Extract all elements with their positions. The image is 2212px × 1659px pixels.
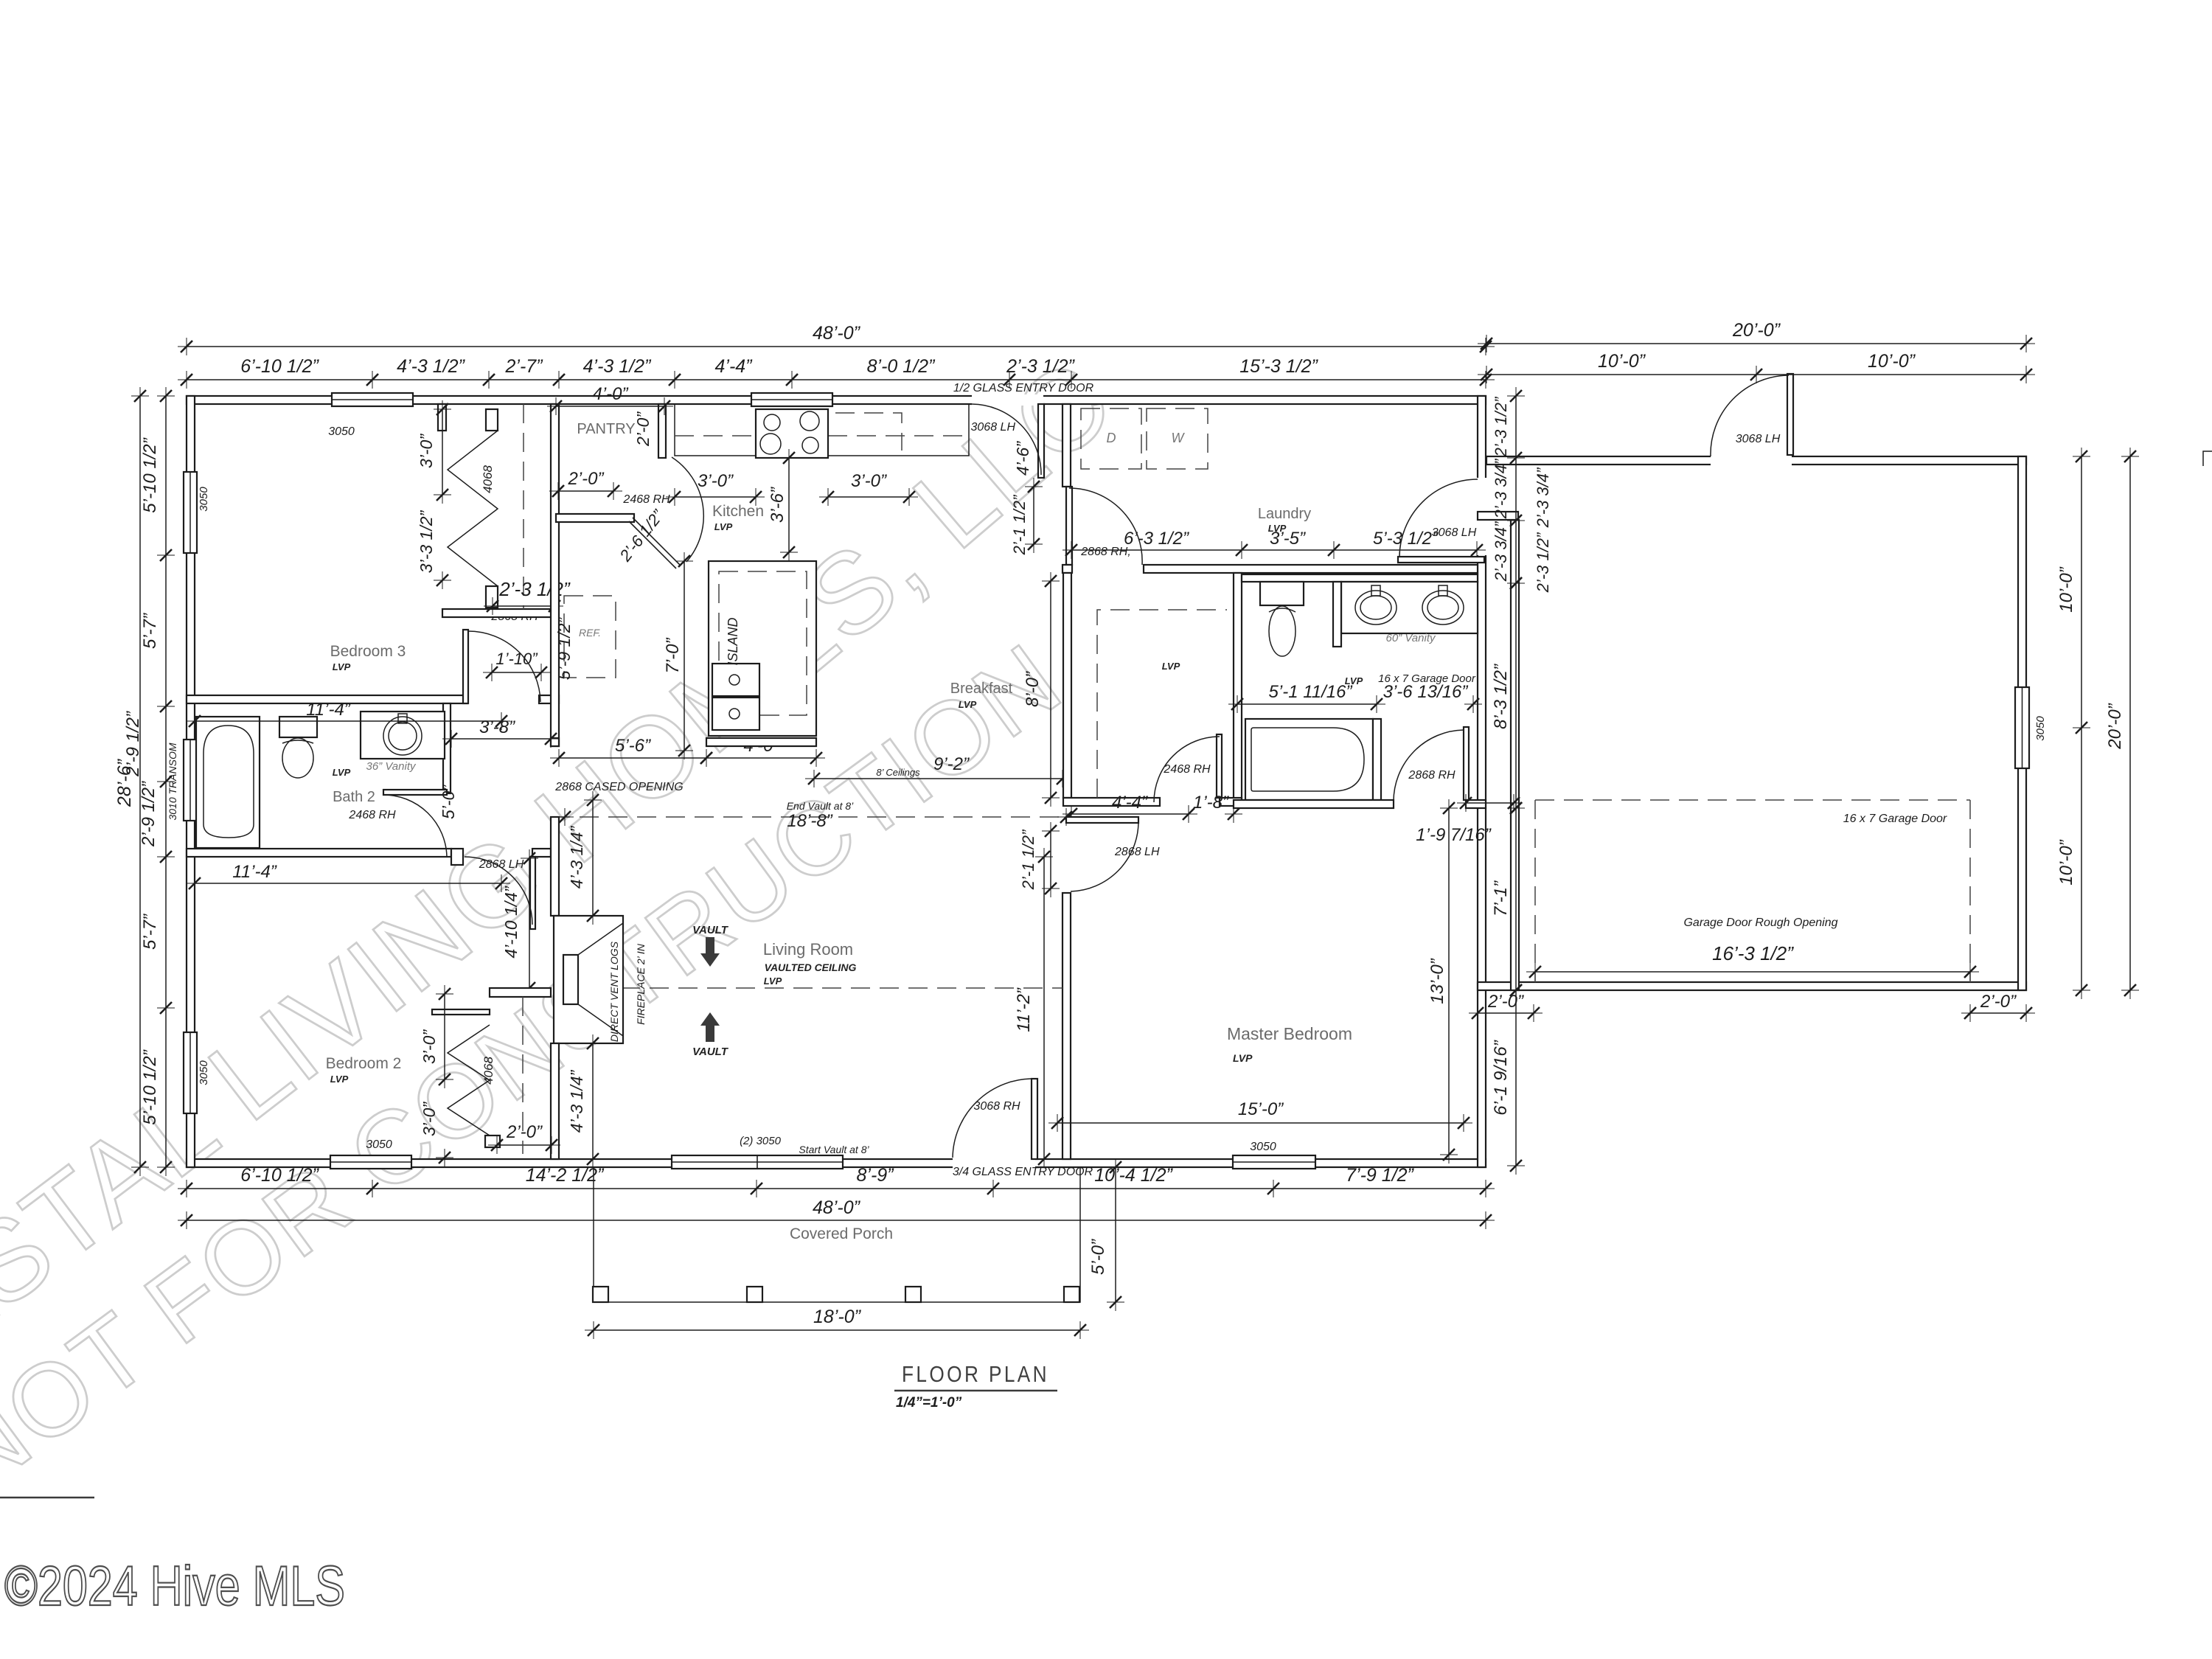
top segment dims xyxy=(187,379,1486,380)
svg-text:LVP: LVP xyxy=(714,521,733,532)
garage top wall xyxy=(1486,456,2026,465)
breakfast dim 9-2 xyxy=(814,778,1062,779)
vault arrow down xyxy=(700,937,720,967)
svg-text:13’-0”: 13’-0” xyxy=(1427,958,1447,1004)
bedroom3 closet bottom wall xyxy=(442,609,556,617)
svg-text:11’-4”: 11’-4” xyxy=(306,700,351,720)
svg-text:4’-3 1/2”: 4’-3 1/2” xyxy=(397,356,465,377)
svg-text:10’-0”: 10’-0” xyxy=(1598,351,1646,372)
svg-text:2868 LH: 2868 LH xyxy=(479,858,524,871)
svg-text:PANTRY: PANTRY xyxy=(577,421,635,437)
svg-text:FIREPLACE 2’ IN: FIREPLACE 2’ IN xyxy=(635,943,647,1025)
svg-text:3’-0”: 3’-0” xyxy=(420,1029,439,1064)
svg-text:5’-7”: 5’-7” xyxy=(140,914,160,950)
kitchen dims xyxy=(675,496,756,498)
bath2 right wall xyxy=(443,703,451,793)
porch overall dim 48-0 xyxy=(187,1220,1486,1221)
svg-text:4068: 4068 xyxy=(481,465,495,493)
watermark text NOT FOR CONSTRUCTION xyxy=(0,686,1084,1497)
svg-text:4’-6”: 4’-6” xyxy=(1013,441,1032,476)
window pair (2) 3050 living room bottom wall xyxy=(672,1155,843,1169)
svg-text:2’-3 3/4”: 2’-3 3/4” xyxy=(1492,521,1510,582)
svg-text:8’-9”: 8’-9” xyxy=(856,1165,894,1186)
svg-text:8’-0”: 8’-0” xyxy=(1023,671,1043,707)
garage right dim chains xyxy=(2081,456,2082,990)
garage overhead door dashed 16x7 xyxy=(1535,799,1970,801)
svg-text:2’-3 1/2”: 2’-3 1/2” xyxy=(1492,396,1510,457)
svg-text:LVP: LVP xyxy=(333,767,351,778)
svg-text:6’-10 1/2”: 6’-10 1/2” xyxy=(240,1165,319,1186)
right side dim chain xyxy=(1515,396,1517,583)
svg-text:Breakfast: Breakfast xyxy=(950,681,1013,697)
svg-text:3050: 3050 xyxy=(198,1060,210,1085)
svg-text:2868 RH: 2868 RH xyxy=(1408,769,1455,782)
svg-text:FLOOR PLAN: FLOOR PLAN xyxy=(902,1361,1049,1387)
svg-text:2468 RH: 2468 RH xyxy=(1163,763,1211,776)
svg-text:Covered Porch: Covered Porch xyxy=(790,1225,893,1242)
svg-text:D: D xyxy=(1107,431,1116,445)
svg-text:6’-1 9/16”: 6’-1 9/16” xyxy=(1491,1040,1511,1115)
porch depth dim 5-0 xyxy=(1115,1167,1116,1302)
svg-text:5’-10 1/2”: 5’-10 1/2” xyxy=(140,437,160,512)
svg-text:10’-0”: 10’-0” xyxy=(2056,566,2076,612)
svg-text:36” Vanity: 36” Vanity xyxy=(366,760,417,773)
window 3050 master bottom wall xyxy=(1233,1155,1315,1169)
svg-text:2868 CASED OPENING: 2868 CASED OPENING xyxy=(554,781,683,793)
window 3030 kitchen top wall xyxy=(751,393,832,406)
svg-text:48’-0”: 48’-0” xyxy=(813,1197,861,1218)
living room dim 11-2 xyxy=(1043,857,1045,1159)
svg-text:3050: 3050 xyxy=(1250,1141,1276,1153)
wall bedroom3 / bath2 xyxy=(187,695,467,703)
svg-text:10’-0”: 10’-0” xyxy=(2056,839,2076,885)
corner mark right edge xyxy=(2203,451,2212,466)
svg-text:16 x 7 Garage Door: 16 x 7 Garage Door xyxy=(1843,813,1947,825)
svg-text:2’-0”: 2’-0” xyxy=(567,469,604,489)
closet south wall xyxy=(1063,798,1160,806)
porch bottom segment dims xyxy=(187,1188,1486,1189)
svg-text:2’-3 1/2”: 2’-3 1/2” xyxy=(1006,356,1075,377)
svg-text:14’-2 1/2”: 14’-2 1/2” xyxy=(526,1165,605,1186)
covered porch outline xyxy=(594,1167,1080,1302)
closet dims xyxy=(1050,581,1051,798)
svg-text:Start Vault at 8’: Start Vault at 8’ xyxy=(799,1144,869,1155)
laundry south wall xyxy=(1062,565,1072,573)
fireplace dims xyxy=(592,800,594,916)
svg-text:3’-0”: 3’-0” xyxy=(698,471,734,491)
bath2 door 2468 RH xyxy=(383,790,447,795)
svg-text:2’-0”: 2’-0” xyxy=(1980,992,2017,1012)
porch dim 18-0 xyxy=(594,1329,1080,1331)
svg-text:2’-9 1/2”: 2’-9 1/2” xyxy=(139,781,159,847)
bath tub xyxy=(1245,719,1373,800)
svg-text:2’-0”: 2’-0” xyxy=(633,411,653,447)
pantry bottom wall xyxy=(556,514,634,522)
svg-text:2’-1 1/2”: 2’-1 1/2” xyxy=(1010,494,1029,555)
svg-text:3’-0”: 3’-0” xyxy=(851,471,887,491)
overall top dim 48-0 xyxy=(187,346,1486,347)
svg-text:2’-1 1/2”: 2’-1 1/2” xyxy=(1019,829,1037,890)
svg-text:3068 RH: 3068 RH xyxy=(973,1100,1020,1113)
bedroom3 door 2868 RH xyxy=(463,630,468,703)
svg-text:2’-3 3/4”: 2’-3 3/4” xyxy=(1492,458,1510,519)
svg-text:10’-0”: 10’-0” xyxy=(1868,351,1916,372)
dim 2-3.5 below closet xyxy=(493,605,554,607)
svg-text:20’-0”: 20’-0” xyxy=(2105,703,2125,749)
svg-text:3’-6”: 3’-6” xyxy=(768,487,787,523)
garage door 3068 LH top wall xyxy=(1787,374,1793,455)
svg-text:5’-0”: 5’-0” xyxy=(1088,1239,1108,1275)
tub wall stub xyxy=(1373,719,1381,800)
stub wall between house and garage xyxy=(1478,512,1518,520)
house right exterior wall xyxy=(1478,396,1486,1167)
svg-text:(2) 3050: (2) 3050 xyxy=(740,1135,782,1147)
svg-text:1/4”=1’-0”: 1/4”=1’-0” xyxy=(896,1395,962,1411)
window 3050 bedroom3 top wall xyxy=(332,393,413,406)
svg-text:4’-10 1/4”: 4’-10 1/4” xyxy=(501,886,521,959)
master west wall xyxy=(1062,893,1071,1159)
svg-text:20’-0”: 20’-0” xyxy=(1732,320,1781,341)
svg-text:3/4 GLASS ENTRY DOOR: 3/4 GLASS ENTRY DOOR xyxy=(953,1166,1093,1178)
svg-text:3’-6 13/16”: 3’-6 13/16” xyxy=(1383,682,1469,702)
svg-text:3’-5”: 3’-5” xyxy=(1270,529,1306,549)
svg-text:5’-0”: 5’-0” xyxy=(439,785,458,819)
closet west wall xyxy=(1063,573,1071,798)
svg-text:2’-3 1/2”: 2’-3 1/2” xyxy=(498,578,571,600)
svg-text:ISLAND: ISLAND xyxy=(726,617,740,665)
svg-text:3050: 3050 xyxy=(366,1138,392,1151)
svg-text:End Vault at 8’: End Vault at 8’ xyxy=(787,800,854,812)
svg-text:3068 LH: 3068 LH xyxy=(1736,433,1781,445)
svg-text:4’-3 1/4”: 4’-3 1/4” xyxy=(567,1069,586,1133)
svg-text:2468 RH: 2468 RH xyxy=(348,809,396,821)
svg-text:3’-8”: 3’-8” xyxy=(479,717,515,737)
cased opening dims xyxy=(559,757,706,759)
svg-text:5’-1 11/16”: 5’-1 11/16” xyxy=(1269,682,1353,702)
svg-text:2’-3 3/4”: 2’-3 3/4” xyxy=(1534,467,1552,528)
svg-text:2’-3 1/2”: 2’-3 1/2” xyxy=(1534,532,1552,593)
svg-text:DIRECT VENT LOGS: DIRECT VENT LOGS xyxy=(608,941,620,1042)
svg-text:4’-4”: 4’-4” xyxy=(1112,793,1148,813)
svg-text:18’-8”: 18’-8” xyxy=(787,811,832,831)
hall door 2868 LH xyxy=(530,857,535,929)
toilet master bath xyxy=(1260,582,1304,605)
svg-text:4’-3 1/2”: 4’-3 1/2” xyxy=(583,356,652,377)
svg-text:3050: 3050 xyxy=(198,487,210,512)
bedroom2 closet top wall xyxy=(490,988,551,997)
svg-text:60” Vanity: 60” Vanity xyxy=(1386,632,1436,644)
bath2 vanity 36 xyxy=(361,712,445,759)
svg-text:4’-3 1/4”: 4’-3 1/4” xyxy=(567,825,586,888)
hall entry door 3068 RH three-quarter glass xyxy=(1032,1079,1037,1159)
vault arrow up xyxy=(700,1012,720,1042)
garage 2-0 dims xyxy=(1478,1012,1534,1014)
house top exterior wall xyxy=(187,396,1486,404)
bath2 fixtures: tub xyxy=(196,717,260,848)
svg-text:1’-10”: 1’-10” xyxy=(495,650,538,668)
svg-text:3’-0”: 3’-0” xyxy=(420,1102,439,1136)
svg-text:4068: 4068 xyxy=(481,1057,495,1085)
closet shelves dashed xyxy=(1097,610,1227,798)
svg-text:Bath 2: Bath 2 xyxy=(333,789,375,805)
svg-text:2’-7”: 2’-7” xyxy=(504,356,543,377)
master top wall xyxy=(1234,800,1394,808)
fireplace direct vent xyxy=(551,817,559,916)
entry / laundry wall xyxy=(1062,404,1071,487)
bedroom2 dim 11-4 xyxy=(195,883,501,884)
svg-text:5’-3 1/2”: 5’-3 1/2” xyxy=(1373,529,1439,549)
svg-text:LVP: LVP xyxy=(1233,1052,1253,1064)
svg-text:3050: 3050 xyxy=(2034,716,2047,741)
svg-text:3068 LH: 3068 LH xyxy=(1432,526,1477,539)
cased opening wall xyxy=(551,738,559,746)
svg-text:Laundry: Laundry xyxy=(1258,506,1311,522)
pantry dims xyxy=(556,406,664,407)
window 3050 bedroom2 bottom wall xyxy=(330,1155,411,1169)
bedroom2 closet dims xyxy=(444,994,445,1079)
kitchen counter xyxy=(675,404,969,456)
hall dim 3-8 xyxy=(451,738,551,740)
master dims xyxy=(1448,808,1450,1155)
laundry door 2868 RH xyxy=(1066,487,1072,565)
svg-text:Kitchen: Kitchen xyxy=(712,503,764,520)
bedroom3 closet rod dashed xyxy=(523,404,524,609)
vault dashed line end xyxy=(551,816,1066,818)
svg-text:15’-0”: 15’-0” xyxy=(1238,1099,1284,1119)
svg-text:3068 LH: 3068 LH xyxy=(971,421,1016,434)
bedroom2 closet jamb xyxy=(485,1135,500,1147)
svg-text:4’-4”: 4’-4” xyxy=(714,356,753,377)
pantry right wall xyxy=(658,404,666,458)
svg-text:LVP: LVP xyxy=(330,1074,349,1085)
svg-text:5’-6”: 5’-6” xyxy=(615,736,651,756)
svg-text:7’-9 1/2”: 7’-9 1/2” xyxy=(1346,1165,1414,1186)
svg-text:8’ Ceilings: 8’ Ceilings xyxy=(876,767,920,778)
svg-text:6’-10 1/2”: 6’-10 1/2” xyxy=(240,356,319,377)
svg-text:LVP: LVP xyxy=(333,661,351,672)
closet east wall xyxy=(1234,573,1242,800)
svg-text:2868 LH: 2868 LH xyxy=(1114,846,1160,858)
svg-text:6’-3 1/2”: 6’-3 1/2” xyxy=(1124,529,1189,549)
garage top dim 20-0 xyxy=(1486,343,2026,344)
svg-text:15’-3 1/2”: 15’-3 1/2” xyxy=(1239,356,1318,377)
svg-text:7’-0”: 7’-0” xyxy=(663,637,683,673)
laundry dims xyxy=(1071,549,1477,551)
vanity 60 inch double xyxy=(1341,582,1478,633)
refrigerator dashed xyxy=(564,596,616,678)
bedroom3 closet stub wall xyxy=(438,404,446,431)
garage bottom wall xyxy=(1478,982,2026,990)
svg-text:11’-4”: 11’-4” xyxy=(232,862,277,882)
svg-text:LVP: LVP xyxy=(764,975,782,987)
svg-text:Living Room: Living Room xyxy=(763,940,853,959)
garage left wall xyxy=(1511,520,1519,990)
svg-text:2’-9 1/2”: 2’-9 1/2” xyxy=(123,711,143,777)
laundry exterior door 3068 LH right wall xyxy=(1398,557,1484,563)
svg-text:3’-3 1/2”: 3’-3 1/2” xyxy=(417,509,436,573)
porch posts xyxy=(593,1287,608,1302)
garage right wall xyxy=(2018,456,2026,990)
svg-text:2’-0”: 2’-0” xyxy=(1487,992,1524,1012)
hive mls logo xyxy=(0,1497,94,1499)
island dims xyxy=(684,561,685,751)
living west wall lower xyxy=(551,1043,559,1159)
svg-text:18’-0”: 18’-0” xyxy=(813,1307,862,1327)
bedroom2 closet rod dashed xyxy=(522,997,524,1154)
svg-text:4’-0”: 4’-0” xyxy=(592,384,628,404)
window 3050 bedroom2 left wall xyxy=(184,1032,197,1113)
svg-text:VAULT: VAULT xyxy=(692,924,729,936)
svg-text:LVP: LVP xyxy=(959,699,977,710)
bath2 toilet xyxy=(279,717,317,737)
svg-text:Garage Door Rough Opening: Garage Door Rough Opening xyxy=(1683,917,1837,929)
bedroom2 closet bifold 4068 xyxy=(448,1025,490,1135)
svg-text:1/2 GLASS ENTRY DOOR: 1/2 GLASS ENTRY DOOR xyxy=(953,382,1094,394)
entry door 3068 LH half glass xyxy=(1038,404,1044,478)
master bath top wall xyxy=(1242,574,1478,582)
svg-text:Bedroom 3: Bedroom 3 xyxy=(330,643,406,660)
svg-text:VAULT: VAULT xyxy=(692,1046,729,1058)
svg-text:8’-0 1/2”: 8’-0 1/2” xyxy=(867,356,936,377)
island sink xyxy=(712,664,759,696)
svg-text:VAULTED CEILING: VAULTED CEILING xyxy=(765,961,857,973)
svg-text:3050: 3050 xyxy=(328,425,355,438)
pantry door 2468 RH diagonal xyxy=(633,518,680,565)
kitchen island xyxy=(709,561,816,736)
house left exterior wall xyxy=(187,396,195,1167)
watermark text COASTAL LIVING HOMES LLC xyxy=(0,383,1154,1464)
svg-text:W: W xyxy=(1172,431,1186,445)
pantry left wall xyxy=(551,404,559,746)
washer dryer dashed xyxy=(1081,408,1141,469)
bedroom3 closet bifold doors 4068 xyxy=(448,431,498,586)
svg-text:©2024 Hive MLS: ©2024 Hive MLS xyxy=(4,1555,345,1618)
svg-text:2’-0”: 2’-0” xyxy=(506,1122,543,1142)
svg-text:REF.: REF. xyxy=(579,627,601,639)
svg-text:3’-0”: 3’-0” xyxy=(417,434,436,468)
svg-text:1’-9 7/16”: 1’-9 7/16” xyxy=(1416,825,1491,845)
bedroom3 dim 11-4 xyxy=(195,720,501,722)
fireplace centerline dashed xyxy=(621,987,1062,989)
house bottom exterior wall xyxy=(187,1159,1486,1167)
svg-text:2468 RH: 2468 RH xyxy=(622,493,670,506)
svg-text:3010 TRANSOM: 3010 TRANSOM xyxy=(167,742,178,820)
svg-text:48’-0”: 48’-0” xyxy=(813,323,861,344)
bedroom3 closet dims xyxy=(442,409,443,495)
bedroom2 closet bottom return xyxy=(497,1144,552,1146)
svg-text:1’-8”: 1’-8” xyxy=(1193,793,1229,813)
overall left dim 28-6 xyxy=(139,396,141,1167)
svg-text:5’-10 1/2”: 5’-10 1/2” xyxy=(140,1049,160,1124)
window 3050 garage right wall xyxy=(2015,687,2029,768)
svg-text:5’-9 1/2”: 5’-9 1/2” xyxy=(554,616,574,680)
window 3050 bedroom3 left wall xyxy=(184,472,197,553)
svg-text:Master Bedroom: Master Bedroom xyxy=(1227,1024,1352,1043)
wall bath2 / bedroom2 xyxy=(187,849,451,857)
window 3010 transom bath2 left wall xyxy=(184,740,197,821)
svg-text:10’-4 1/2”: 10’-4 1/2” xyxy=(1094,1165,1173,1186)
hall south wall by bedroom2 xyxy=(532,849,551,857)
master door 2868 LH xyxy=(1066,817,1138,823)
garage top dims 10-0 xyxy=(1486,374,2026,375)
svg-text:7’-1”: 7’-1” xyxy=(1491,880,1511,917)
svg-text:9’-2”: 9’-2” xyxy=(933,754,970,774)
closet door 2468 RH xyxy=(1217,734,1222,798)
bedroom3 closet jamb top xyxy=(486,409,498,431)
svg-text:8’-3 1/2”: 8’-3 1/2” xyxy=(1491,664,1511,729)
svg-text:5’-7”: 5’-7” xyxy=(140,613,160,649)
stove xyxy=(756,409,828,458)
svg-text:LVP: LVP xyxy=(1162,661,1180,672)
left segment dims xyxy=(165,396,167,1167)
svg-text:Bedroom 2: Bedroom 2 xyxy=(326,1055,402,1072)
bedroom3 closet jamb bottom xyxy=(486,586,498,608)
svg-text:11’-2”: 11’-2” xyxy=(1014,987,1034,1032)
svg-text:16’-3 1/2”: 16’-3 1/2” xyxy=(1712,942,1794,964)
master bath door 2868 RH xyxy=(1464,727,1469,800)
